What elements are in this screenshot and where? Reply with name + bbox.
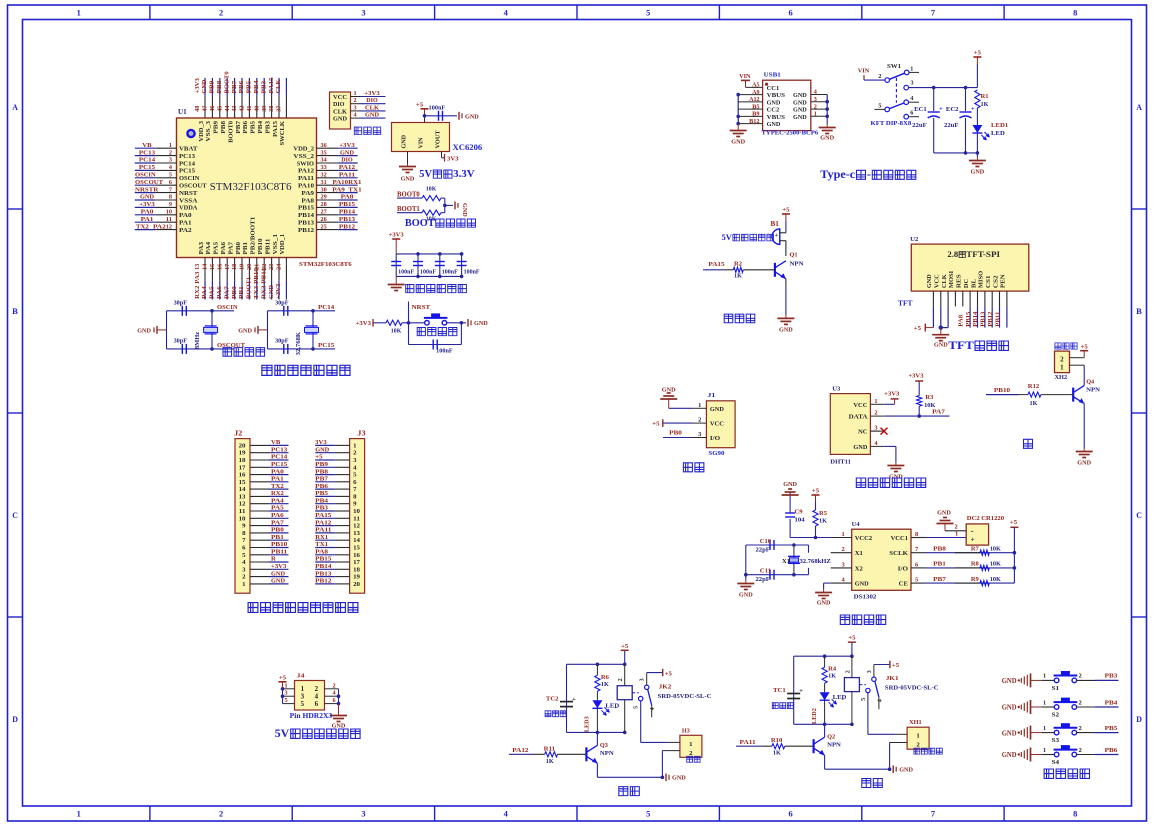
svg-text:PA1: PA1 [179,220,192,227]
svg-text:OSCOUT: OSCOUT [179,183,207,190]
svg-text:1: 1 [1043,674,1046,680]
svg-text:4: 4 [504,810,508,819]
svg-text:PB14: PB14 [339,209,356,216]
svg-text:10: 10 [353,508,361,515]
svg-text:1: 1 [916,733,919,740]
svg-text:R1: R1 [981,93,989,100]
svg-text:+5: +5 [416,101,424,108]
svg-text:PA0: PA0 [179,212,192,219]
svg-text:SRD-05VDC-SL-C: SRD-05VDC-SL-C [658,693,712,700]
svg-text:100nF: 100nF [436,349,453,355]
svg-text:PA2: PA2 [153,223,167,230]
svg-text:3: 3 [814,97,817,103]
svg-text:GND: GND [315,446,329,453]
svg-text:STM32F103C8T6: STM32F103C8T6 [210,182,292,193]
svg-text:XH1: XH1 [909,719,922,726]
svg-text:24: 24 [277,264,283,270]
svg-text:11: 11 [239,508,246,515]
svg-text:18: 18 [232,264,238,270]
svg-text:VCC1: VCC1 [891,535,908,542]
svg-text:C10: C10 [760,538,771,545]
svg-text:GND: GND [793,107,807,114]
svg-text:DS1302: DS1302 [854,594,877,601]
svg-text:5: 5 [878,103,881,109]
svg-text:PA6: PA6 [220,241,227,254]
svg-text:25: 25 [321,224,327,230]
svg-text:+3V3: +3V3 [194,77,201,93]
svg-text:PB10: PB10 [994,387,1011,394]
svg-text:PA12: PA12 [512,747,529,754]
svg-text:PB4: PB4 [315,497,329,504]
svg-text:6: 6 [915,561,918,568]
svg-text:10K: 10K [426,187,437,193]
svg-text:1: 1 [77,810,81,819]
svg-text:MOSI: MOSI [948,270,955,288]
svg-text:PB7: PB7 [231,80,238,94]
svg-text:PB7: PB7 [315,476,329,483]
svg-text:PC14: PC14 [179,160,196,167]
svg-text:VOUT: VOUT [434,130,441,149]
svg-text:42: 42 [240,106,246,112]
svg-text:RX2: RX2 [271,490,284,497]
svg-text:PB0: PB0 [271,527,285,534]
svg-text:18: 18 [239,457,247,464]
svg-text:PB4: PB4 [253,80,260,94]
svg-text:2: 2 [219,810,223,819]
svg-text:PB1: PB1 [242,242,249,255]
svg-text:1K: 1K [819,518,827,525]
svg-text:PA5: PA5 [213,241,220,254]
svg-text:+5: +5 [315,454,323,461]
svg-text:1K: 1K [773,750,781,757]
svg-text:3: 3 [301,694,305,701]
svg-text:PB8: PB8 [220,120,227,133]
svg-text:32.768kHZ: 32.768kHZ [800,558,831,565]
svg-text:23: 23 [269,264,275,270]
svg-text:VCC: VCC [333,94,347,101]
svg-text:7: 7 [931,810,935,819]
svg-text:PB4: PB4 [257,120,264,133]
svg-text:1: 1 [1043,726,1046,732]
svg-text:100nF: 100nF [464,270,480,276]
svg-text:PB6: PB6 [242,120,249,133]
svg-text:2: 2 [698,417,701,424]
svg-text:D: D [12,715,18,724]
svg-text:1: 1 [301,686,305,693]
svg-text:15: 15 [353,545,361,552]
svg-text:C11: C11 [760,567,771,574]
svg-text:S3: S3 [1052,737,1060,744]
svg-text:SWIO: SWIO [297,160,314,167]
svg-text:13: 13 [353,530,361,537]
svg-text:NC: NC [858,429,868,436]
svg-text:BOOT0: BOOT0 [227,121,234,143]
svg-text:48: 48 [195,106,201,112]
svg-text:5: 5 [646,810,650,819]
svg-text:19: 19 [239,450,247,457]
svg-text:GND: GND [853,444,867,451]
svg-text:PB6: PB6 [315,483,329,490]
svg-text:LED: LED [991,130,1005,137]
svg-text:BL: BL [970,278,977,288]
svg-text:8: 8 [1073,9,1077,18]
svg-text:GND: GND [731,139,745,146]
svg-text:PC15: PC15 [271,461,288,468]
svg-text:12: 12 [166,224,172,230]
svg-text:BOOT0: BOOT0 [223,71,230,94]
svg-text:VCC: VCC [934,274,941,288]
svg-text:PB12: PB12 [339,223,356,230]
svg-text:PA0: PA0 [141,209,155,216]
svg-text:3: 3 [874,425,877,432]
svg-text:18: 18 [353,566,361,573]
svg-text:3: 3 [354,105,357,111]
svg-text:GND: GND [820,135,834,142]
svg-text:LED2: LED2 [812,708,818,724]
svg-text:OSCOUT: OSCOUT [135,179,164,186]
svg-text:PC13: PC13 [271,446,288,453]
svg-text:GND: GND [365,112,379,119]
svg-text:14: 14 [239,486,247,493]
svg-text:CLK: CLK [275,79,282,94]
svg-text:MISO: MISO [978,271,985,288]
svg-text:8: 8 [169,195,172,201]
svg-text:PB0: PB0 [669,430,683,437]
svg-text:PB13: PB13 [315,570,332,577]
svg-text:1: 1 [242,581,245,588]
svg-text:PC14: PC14 [318,304,335,311]
svg-text:CLK: CLK [365,104,380,111]
svg-text:2: 2 [219,9,223,18]
svg-text:+: + [572,696,576,703]
svg-text:1: 1 [169,143,172,149]
svg-text:LED: LED [605,702,619,709]
svg-text:PA15: PA15 [268,77,275,94]
svg-text:TX2: TX2 [136,223,150,230]
svg-text:JK1: JK1 [886,675,899,682]
svg-text:PA12: PA12 [298,168,314,175]
svg-text:TC1: TC1 [773,687,786,694]
svg-text:+: + [799,688,803,695]
svg-text:OSCIN: OSCIN [135,172,156,179]
svg-text:R6: R6 [601,674,610,681]
svg-text:2: 2 [333,683,336,689]
svg-text:2: 2 [618,678,624,681]
svg-text:VCC2: VCC2 [855,535,873,542]
svg-text:2: 2 [1060,357,1064,364]
svg-text:43: 43 [232,106,238,112]
svg-text:GND: GND [767,121,781,128]
svg-text:PA5: PA5 [209,285,216,299]
svg-text:EC2: EC2 [946,106,959,113]
svg-text:6: 6 [910,111,913,117]
svg-text:DC2 CR1220: DC2 CR1220 [967,515,1004,522]
svg-text:RX2 PA3: RX2 PA3 [194,271,201,299]
svg-text:GND: GND [340,149,354,156]
svg-text:2: 2 [874,410,877,417]
svg-text:CC1: CC1 [767,85,780,92]
svg-text:DHT11: DHT11 [830,458,851,465]
svg-text:5V: 5V [419,169,432,180]
svg-text:2: 2 [1079,674,1082,680]
svg-text:C9: C9 [795,509,804,516]
svg-text:10K: 10K [391,328,402,334]
svg-text:A5: A5 [752,83,759,89]
svg-text:NRST: NRST [179,190,198,197]
svg-text:R2: R2 [734,261,742,268]
svg-text:GND: GND [889,474,903,481]
svg-text:13: 13 [195,264,201,270]
svg-text:30pF: 30pF [275,300,289,306]
svg-text:3: 3 [361,9,365,18]
svg-text:6: 6 [333,698,336,704]
svg-text:X1: X1 [782,558,790,565]
svg-text:NRSTR: NRSTR [135,186,159,193]
svg-text:PB8: PB8 [315,468,329,475]
svg-text:PC15: PC15 [318,342,335,349]
svg-text:R: R [271,556,276,563]
svg-text:PA10: PA10 [298,183,314,190]
svg-text:22pF: 22pF [756,576,770,583]
svg-text:9: 9 [169,202,172,208]
svg-text:20: 20 [353,581,361,588]
svg-text:VB: VB [142,142,152,149]
svg-text:GND: GND [926,274,933,288]
svg-text:14: 14 [353,537,361,544]
svg-text:PB14: PB14 [298,212,315,219]
svg-text:PB10: PB10 [257,239,264,255]
svg-text:+3V3: +3V3 [908,372,924,379]
svg-text:Type-c: Type-c [820,169,855,181]
svg-text:32: 32 [321,173,327,179]
svg-text:GND: GND [739,592,753,599]
svg-text:-: - [614,704,616,711]
svg-text:3: 3 [911,81,914,87]
svg-text:38: 38 [269,106,275,112]
svg-text:19: 19 [240,264,246,270]
svg-text:+3V3: +3V3 [884,390,900,397]
svg-text:C: C [12,511,18,520]
svg-text:OSCIN: OSCIN [179,175,200,182]
svg-text:1: 1 [874,398,877,405]
svg-text:PA11: PA11 [315,527,331,534]
svg-text:GND: GND [855,581,869,588]
svg-text:5: 5 [285,698,288,704]
svg-text:19: 19 [353,574,361,581]
svg-text:J2: J2 [234,431,243,438]
svg-text:Q2: Q2 [827,734,835,741]
svg-text:CLK: CLK [941,274,948,288]
svg-text:PA15: PA15 [708,261,725,268]
svg-text:+5: +5 [665,670,673,677]
svg-text:GND: GND [268,285,275,299]
svg-text:1K: 1K [601,681,609,688]
svg-text:CC2: CC2 [767,107,780,114]
svg-text:PB9: PB9 [209,80,216,94]
svg-text:PB9: PB9 [315,461,329,468]
svg-text:1: 1 [842,531,845,538]
svg-text:PB3: PB3 [315,505,329,512]
svg-text:1K: 1K [1030,400,1038,407]
svg-text:PC14: PC14 [271,454,288,461]
svg-text:GND: GND [793,114,807,121]
svg-text:GND: GND [140,194,154,201]
svg-text:4: 4 [315,694,319,701]
svg-text:LED1: LED1 [991,122,1008,129]
svg-text:2: 2 [354,98,357,104]
svg-text:PB14: PB14 [315,563,332,570]
svg-text:GND: GND [1002,677,1017,685]
svg-text:PB9: PB9 [213,120,220,133]
svg-text:2: 2 [814,104,817,110]
svg-text:4: 4 [877,699,883,702]
svg-text:1: 1 [354,91,357,97]
svg-text:22uF: 22uF [912,122,927,129]
svg-text:PB13: PB13 [339,216,356,223]
svg-text:PA7: PA7 [223,285,230,299]
svg-text:U3: U3 [832,386,841,393]
svg-text:+5: +5 [914,325,922,332]
svg-text:PEN: PEN [1000,274,1007,288]
svg-text:PB3: PB3 [264,120,271,133]
svg-text:PA9 TX1: PA9 TX1 [332,186,361,193]
svg-text:U2: U2 [910,236,918,243]
svg-text:B1: B1 [771,221,780,228]
svg-text:10K: 10K [990,545,1001,552]
svg-text:VCC: VCC [710,421,724,428]
svg-text:GND: GND [899,767,913,774]
svg-text:-: - [867,169,871,181]
svg-text:VCC: VCC [853,402,867,409]
svg-text:R4: R4 [828,666,837,673]
svg-text:7: 7 [915,546,918,553]
svg-text:6: 6 [789,810,793,819]
svg-text:DIO: DIO [333,101,344,108]
svg-text:PA4: PA4 [205,241,212,254]
svg-text:PC13: PC13 [139,149,156,156]
svg-text:8MHz: 8MHz [194,332,201,349]
svg-text:15: 15 [239,479,247,486]
svg-text:PA5: PA5 [271,505,285,512]
svg-text:+: + [775,232,779,239]
svg-text:TFT-SPI: TFT-SPI [966,250,1000,259]
svg-text:VBUS: VBUS [767,92,786,99]
svg-text:5: 5 [169,173,172,179]
svg-text:17: 17 [353,559,361,566]
svg-text:TFT: TFT [898,301,913,308]
svg-text:3: 3 [285,691,288,697]
svg-text:4: 4 [650,707,656,710]
svg-text:GND: GND [767,100,781,107]
svg-text:PA12: PA12 [315,519,332,526]
svg-text:3: 3 [640,678,646,681]
svg-text:2: 2 [842,546,845,553]
svg-text:-: - [842,696,844,703]
svg-text:1: 1 [1043,700,1046,706]
svg-text:PA7: PA7 [271,519,285,526]
svg-text:J4: J4 [297,673,306,680]
svg-text:PB5: PB5 [246,80,253,94]
svg-text:PB6: PB6 [238,80,245,94]
svg-text:PB1: PB1 [933,561,946,568]
svg-text:1K: 1K [828,673,836,680]
svg-text:NPN: NPN [600,750,614,757]
svg-text:20: 20 [239,442,247,449]
svg-text:16: 16 [353,552,361,559]
svg-text:NPN: NPN [827,742,841,749]
svg-text:GND: GND [333,116,347,123]
svg-text:J1: J1 [707,392,715,399]
svg-text:PB15: PB15 [965,312,972,327]
svg-text:CE: CE [899,581,909,588]
svg-text:32,768K: 32,768K [295,332,302,356]
svg-text:VDD_3: VDD_3 [198,120,205,141]
svg-text:8: 8 [1073,810,1077,819]
svg-text:GND: GND [1002,751,1017,759]
svg-text:PB8: PB8 [216,80,223,94]
svg-text:LED3: LED3 [585,716,591,732]
svg-text:+5: +5 [974,50,982,57]
svg-text:104: 104 [795,517,806,524]
svg-text:LED: LED [833,694,847,701]
svg-text:7: 7 [169,187,172,193]
svg-text:PA6: PA6 [216,285,223,299]
svg-text:PB15: PB15 [298,205,315,212]
svg-text:+5: +5 [892,662,900,669]
svg-text:DATA: DATA [849,414,868,421]
svg-text:B: B [12,307,18,316]
svg-text:4: 4 [874,440,877,447]
svg-text:GND: GND [662,387,676,394]
svg-text:45: 45 [217,106,223,112]
svg-text:PA1: PA1 [271,476,284,483]
svg-text:PA7: PA7 [932,409,946,416]
svg-text:10K: 10K [990,576,1001,583]
svg-text:3V3: 3V3 [447,156,459,163]
svg-text:13: 13 [239,493,247,500]
svg-text:GND: GND [672,775,686,782]
svg-text:TYPEC-2500-BCP6: TYPEC-2500-BCP6 [762,130,819,137]
svg-text:GND: GND [971,169,985,176]
svg-text:PB12: PB12 [987,312,994,327]
svg-text:31: 31 [321,180,327,186]
svg-text:30pF: 30pF [174,300,188,306]
svg-text:VSS_3: VSS_3 [205,120,212,141]
svg-text:R8: R8 [971,561,979,568]
svg-text:A: A [1136,103,1142,112]
svg-text:R12: R12 [1028,383,1039,390]
svg-text:PA6: PA6 [271,512,285,519]
svg-text:PA8: PA8 [958,315,965,327]
svg-text:3: 3 [698,431,701,438]
svg-text:PB0: PB0 [235,242,242,255]
svg-text:2: 2 [845,670,851,673]
svg-text:DC: DC [963,279,970,288]
svg-text:RX1: RX1 [315,534,328,541]
svg-text:+3V3: +3V3 [364,90,380,97]
svg-text:PB4: PB4 [1105,699,1119,706]
svg-text:12: 12 [353,523,361,530]
svg-text:7: 7 [931,9,935,18]
svg-text:S2: S2 [1052,712,1060,719]
svg-text:PB3: PB3 [1105,673,1119,680]
svg-text:X1: X1 [855,550,863,557]
svg-text:1: 1 [955,531,958,538]
svg-text:GND: GND [1077,460,1091,467]
svg-text:3: 3 [361,810,365,819]
svg-text:15: 15 [210,264,216,270]
svg-text:PB1: PB1 [271,534,284,541]
